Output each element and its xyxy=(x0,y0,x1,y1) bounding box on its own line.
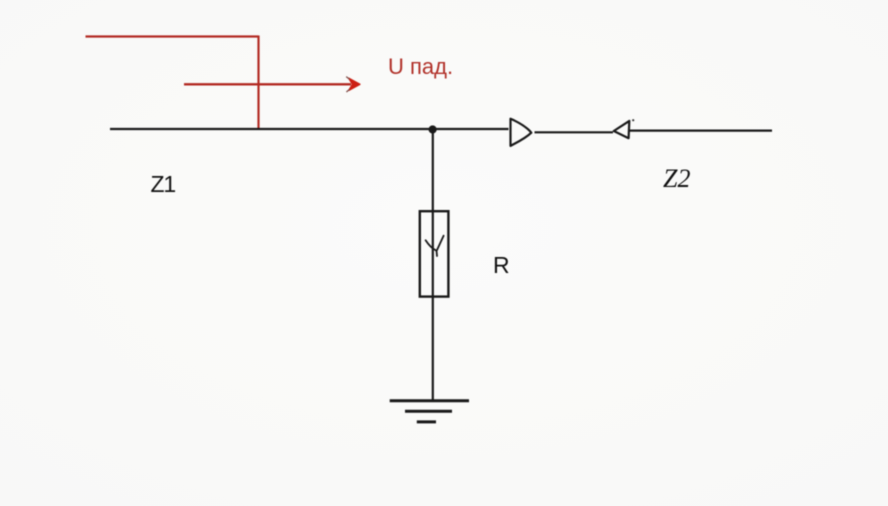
red stub vertical xyxy=(257,36,259,130)
wire between arrow symbols xyxy=(535,131,614,133)
arrow U pad (red) xyxy=(184,77,360,92)
node junction dot xyxy=(429,125,437,133)
resistor R body xyxy=(420,211,449,296)
arrow symbol pointing left (toward Z1) xyxy=(614,119,635,138)
svg-text:R: R xyxy=(493,252,510,278)
red bus line top xyxy=(86,35,259,37)
wire through resistor xyxy=(432,211,434,297)
wire Z1 main line xyxy=(110,128,509,130)
wire vertical junction to resistor xyxy=(432,130,434,212)
buffer arrow symbol pointing right xyxy=(511,119,532,146)
ground symbol xyxy=(390,401,469,422)
svg-text:Z1: Z1 xyxy=(151,171,176,197)
wire Z2 line xyxy=(630,130,773,132)
svg-text:Z2: Z2 xyxy=(663,164,690,193)
svg-text:U пад.: U пад. xyxy=(388,54,453,79)
wire resistor to ground xyxy=(432,297,434,401)
